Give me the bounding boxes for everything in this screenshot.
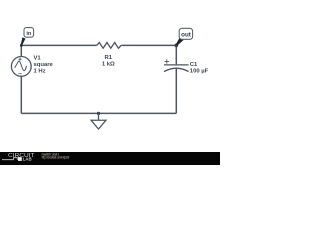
capacitor C1 xyxy=(164,59,189,71)
node in flag box xyxy=(24,28,34,38)
svg-text:out: out xyxy=(181,32,192,39)
node out flag box xyxy=(179,28,192,39)
ground junction dot xyxy=(97,112,100,115)
wire top segment left (in node to R1) xyxy=(21,44,96,46)
svg-text:1 Hz: 1 Hz xyxy=(34,69,46,75)
svg-text:1 kΩ: 1 kΩ xyxy=(102,62,115,68)
node out flag tail xyxy=(176,38,184,46)
node out junction dot xyxy=(174,44,178,48)
voltage source V1 xyxy=(11,57,31,77)
svg-text:in: in xyxy=(26,31,32,37)
svg-text:LAB: LAB xyxy=(23,157,32,162)
svg-text:100 µF: 100 µF xyxy=(190,68,209,74)
svg-text:V1: V1 xyxy=(34,55,42,61)
node in flag tail xyxy=(21,37,26,45)
wire left vertical upper (in node to V1 top) xyxy=(20,45,22,56)
svg-text:square: square xyxy=(34,62,54,68)
wire right vertical lower (C1 to bottom rail) xyxy=(175,68,177,113)
svg-text:C1: C1 xyxy=(190,62,198,68)
watermark bar xyxy=(0,152,220,165)
ground xyxy=(91,113,106,129)
wire top segment right (R1 to out node) xyxy=(121,44,176,46)
canvas background xyxy=(0,0,220,165)
svg-text:R1: R1 xyxy=(105,55,113,61)
watermark CircuitLab logo xyxy=(2,153,35,162)
wire left vertical lower (V1 bottom to bottom rail) xyxy=(20,76,22,113)
svg-text:http://circuitlab.com/c4j2zd9: http://circuitlab.com/c4j2zd9 xyxy=(42,156,69,160)
node in junction xyxy=(20,44,23,47)
wire right vertical upper (out node to C1) xyxy=(175,45,177,64)
wire bottom rail xyxy=(21,112,176,114)
resistor R1 xyxy=(97,43,122,49)
